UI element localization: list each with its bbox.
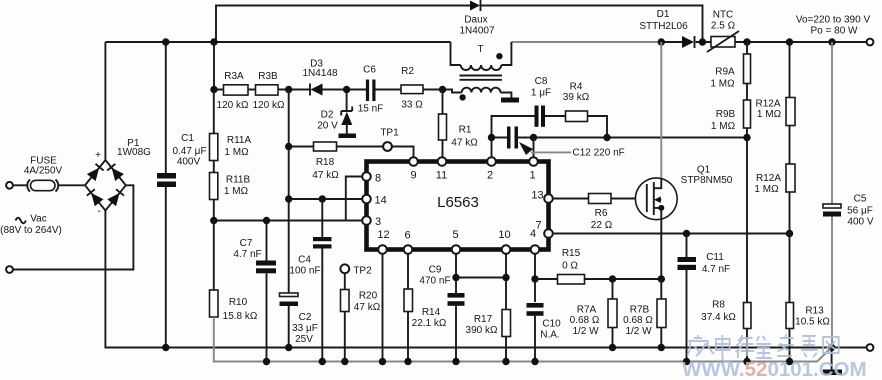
capacitor C11 [678,234,697,362]
svg-text:C5: C5 [854,194,867,205]
wire main rail grey section after transformer [511,41,661,43]
svg-text:TP2: TP2 [353,266,372,277]
svg-text:1: 1 [529,170,535,182]
junction dot R4 bottom node [603,134,610,141]
label R1 47k [451,125,478,149]
svg-text:R10: R10 [229,297,248,308]
resistor R12A lower [786,164,795,192]
resistor R9B [744,100,751,128]
chain C5 vertical grey [831,42,833,348]
svg-text:STTH2L06: STTH2L06 [639,21,688,32]
capacitor C4 [313,199,332,362]
label R7B [623,305,653,338]
svg-text:7: 7 [535,220,541,232]
IC pin 8 [362,172,371,181]
svg-text:1W08G: 1W08G [117,147,151,158]
svg-text:R3B: R3B [258,71,278,82]
resistor R14 [404,289,413,362]
IC pin 6 [404,245,413,254]
svg-text:3: 3 [375,216,381,228]
svg-text:11: 11 [436,170,447,182]
svg-text:NTC: NTC [713,10,734,21]
svg-text:C4: C4 [298,255,311,266]
IC pin 12 [378,245,387,254]
wire Q1 source vertical [660,234,662,280]
wire pin1 vertical [533,138,535,158]
resistor R11A [210,90,218,173]
resistor R13 [786,303,794,329]
label R4 39k [563,82,590,104]
label D1 STTH2L06 [639,9,688,32]
svg-text:C11: C11 [706,252,724,263]
label Vac [0,214,62,237]
label Vo Po output [796,15,871,37]
test point TP1 [383,142,413,157]
label C1 [172,133,206,168]
resistor R4 [566,111,608,138]
capacitor C1 [157,42,176,348]
IC pin 5 [452,245,461,254]
svg-text:Vac: Vac [30,214,47,225]
transistor Q1 MOSFET [635,42,677,234]
svg-text:Q1: Q1 [697,165,711,176]
terminal input top [6,182,13,189]
junction dot R3A row [210,86,217,93]
svg-text:R9B: R9B [716,109,736,120]
junction dot R13 top [786,230,793,237]
wire bridge top to rail [104,42,106,160]
IC pin 7 [544,229,553,238]
resistor R6 [589,194,612,204]
wire pin3 row [214,220,362,222]
svg-text:R2: R2 [401,66,414,77]
label C7 4.7nF [233,238,261,260]
label NTC 2.5 ohm [711,10,736,32]
svg-text:D2: D2 [321,110,334,121]
label R15 0ohm [562,248,581,272]
svg-text:20 V: 20 V [317,121,338,132]
chain R12 vertical [789,42,791,362]
svg-text:C12 220 nF: C12 220 nF [573,148,625,159]
svg-text:0.47 μF: 0.47 μF [172,146,206,157]
label C6 15nF [358,65,384,115]
wire pin10 vertical [505,254,507,310]
label R14 22.1k [412,307,447,329]
svg-text:1 MΩ: 1 MΩ [710,79,735,90]
capacitor C2 electrolytic [280,293,299,348]
svg-text:4.7 nF: 4.7 nF [233,249,261,260]
label C10 NA [540,319,561,341]
chain R3B node vertical x288.7 [288,90,290,294]
svg-text:120 kΩ: 120 kΩ [217,100,249,111]
svg-text:C7: C7 [240,238,253,249]
svg-text:2: 2 [487,170,493,182]
wire C12 row [492,137,748,139]
label R18 47k [312,157,339,181]
junction dot R9B bottom [743,134,750,141]
label R7A [570,305,600,338]
svg-text:37.4 kΩ: 37.4 kΩ [701,312,736,323]
svg-text:D1: D1 [657,9,670,20]
IC pin 4 [531,245,540,254]
wire pin8 link [346,177,363,221]
svg-text:4: 4 [530,228,536,240]
wire pin5 vertical [455,254,457,293]
resistor R12A upper [786,98,795,126]
label R13 10.5k [795,306,830,328]
svg-text:6: 6 [404,230,410,242]
label R2 33ohm [401,66,423,111]
svg-text:5: 5 [452,229,458,241]
wire x214 vertical from rails to R3A row [213,42,215,90]
junction dot R18 left [285,143,292,150]
svg-text:1/2 W: 1/2 W [625,326,652,337]
thermistor NTC [707,31,739,52]
label R17 390k [466,314,498,336]
label R12A upper [755,99,781,121]
label C5 56uF 400V [847,194,874,228]
svg-text:4A/250V: 4A/250V [24,166,63,177]
IC pin 10 [502,245,511,254]
wire pin4 vertical [534,254,536,302]
resistor R11B [210,173,218,221]
ground bar D2 [339,134,357,139]
svg-text:R11B: R11B [226,175,251,186]
test point TP2 [340,264,349,273]
transformer phasing dot secondary [459,94,465,100]
junction dot pin5 row [452,274,459,281]
svg-text:TP1: TP1 [380,128,399,139]
svg-text:22.1 kΩ: 22.1 kΩ [412,318,447,329]
label D2 20V [317,110,338,132]
svg-text:39 kΩ: 39 kΩ [563,92,590,103]
IC pin 3 [362,216,371,225]
junction dot pin10 row [502,274,509,281]
svg-text:R17: R17 [474,314,493,325]
svg-text:47 kΩ: 47 kΩ [451,138,478,149]
watermark [682,334,867,380]
IC pin 11 [438,157,447,166]
wire pin7 row [553,233,790,235]
svg-text:33 Ω: 33 Ω [401,100,423,111]
svg-text:10.5 kΩ: 10.5 kΩ [795,317,830,328]
wire top auxiliary rail [216,6,703,43]
transformer secondary [443,88,512,98]
svg-text:N.A.: N.A. [540,330,559,341]
svg-text:R18: R18 [316,157,335,168]
resistor R8 [744,303,752,329]
svg-text:22 Ω: 22 Ω [591,220,613,231]
junction dots on main rail [162,38,169,45]
terminal output plus [867,39,874,46]
capacitor C9 [448,293,465,362]
svg-text:-: - [97,206,100,217]
capacitor C5 electrolytic [823,204,841,217]
svg-text:1 MΩ: 1 MΩ [711,121,736,132]
junction dot R11B bottom [210,217,217,224]
wire pin12 vertical [382,254,384,362]
resistor R15 [535,275,661,285]
svg-text:1/2 W: 1/2 W [572,326,599,337]
junction dots grey bus [263,358,270,365]
transformer T primary [451,42,512,70]
label R10 15.8k [223,297,258,322]
svg-text:15 nF: 15 nF [358,104,384,115]
label C11 4.7nF [702,252,730,275]
junction dot C11 top [683,230,690,237]
IC pin 9 [409,157,418,166]
svg-text:R14: R14 [422,307,441,318]
svg-text:0 Ω: 0 Ω [562,261,578,272]
svg-text:Po = 80 W: Po = 80 W [811,26,859,37]
diode D1 [682,36,695,48]
capacitor C7 [256,221,276,362]
svg-text:1 MΩ: 1 MΩ [757,109,782,120]
svg-text:C6: C6 [363,65,376,76]
transformer core [460,76,503,80]
label R11A 1M [224,135,251,158]
junction dot C4 top [319,195,326,202]
svg-text:R8: R8 [712,300,725,311]
svg-text:C8: C8 [535,76,548,87]
wire pin13 gate row [553,198,647,200]
svg-text:390 kΩ: 390 kΩ [466,325,498,336]
svg-text:R12A: R12A [756,173,781,184]
label Daux 1N4007 [459,15,494,37]
junction dot pin14 row left [285,195,292,202]
svg-text:8: 8 [375,173,381,185]
zener D2 [341,90,352,134]
junction dot C7 top [263,217,270,224]
junction dot R7A top [609,275,616,282]
svg-text:9: 9 [410,170,416,182]
svg-text:1 MΩ: 1 MΩ [754,184,779,195]
svg-text:1N4148: 1N4148 [302,68,337,79]
junction dot D2 node [343,86,350,93]
capacitor C10 [527,303,544,362]
svg-text:R11A: R11A [227,135,252,146]
svg-text:R13: R13 [805,306,824,317]
svg-text:R3A: R3A [224,71,244,82]
svg-text:1 μF: 1 μF [531,88,551,99]
label R8 37.4k [701,300,736,324]
resistor R18 [289,142,383,151]
svg-text:0.68 Ω: 0.68 Ω [570,315,600,326]
svg-text:400 V: 400 V [847,217,873,228]
label R20 47k [354,291,381,314]
svg-text:1 MΩ: 1 MΩ [224,147,249,158]
wire pin6 vertical [407,254,409,289]
label R3A [217,71,249,111]
label C8 1uF [531,76,551,99]
svg-text:R7A: R7A [577,305,597,316]
svg-text:+: + [95,150,101,161]
wire main rail y=42 left section [105,41,450,43]
resistor R9A [744,54,751,84]
label C12 arrow [519,142,571,155]
svg-text:R20: R20 [359,291,378,302]
svg-text:C10: C10 [542,319,561,330]
resistor R7B [657,279,666,348]
svg-text:15.8 kΩ: 15.8 kΩ [223,311,258,322]
resistor R1 [439,90,447,158]
svg-text:1N4007: 1N4007 [459,26,494,37]
junction dot pin4 R15 [531,275,538,282]
transformer phasing dot primary [496,53,502,59]
label C2 33uF 25V [292,312,318,345]
ground chassis bottom right [823,348,842,376]
svg-text:14: 14 [375,195,387,207]
svg-text:R15: R15 [562,248,581,259]
svg-text:R9A: R9A [715,67,735,78]
label R9B 1M [711,109,736,132]
capacitor C8 [535,106,546,127]
junction dot pin2 vertical C12 row [488,134,495,141]
svg-text:R6: R6 [595,208,608,219]
svg-text:(88V to 264V): (88V to 264V) [0,225,62,236]
label D3 1N4148 [302,59,337,80]
IC U1 L6563 box [367,162,549,250]
svg-text:STP8NM50: STP8NM50 [681,175,733,186]
label R9A 1M [710,67,735,90]
label C9 470nF [419,265,450,287]
resistor R20 [341,273,350,361]
IC pin 2 [487,157,496,166]
ground bar secondary [501,98,519,103]
fuse FUSE [13,180,85,192]
svg-text:120 kΩ: 120 kΩ [253,100,285,111]
capacitor C6 [366,80,401,102]
svg-text:1 MΩ: 1 MΩ [224,186,249,197]
svg-text:47 kΩ: 47 kΩ [312,170,339,181]
svg-text:C9: C9 [429,265,442,276]
diode Daux [470,0,481,11]
junction dot pin1 top [530,134,537,141]
label FUSE 4A/250V [24,156,63,177]
IC pin 13 [544,194,553,203]
junction dot R2 right node [439,86,446,93]
label R12A lower [754,173,781,195]
resistor R17 [502,310,511,362]
svg-text:12: 12 [377,229,389,241]
svg-text:100 nF: 100 nF [289,266,320,277]
label Q1 STP8NM50 [681,165,733,187]
terminal output minus [867,344,874,351]
resistor R10 [210,221,219,318]
diode D3 [310,84,366,96]
bridge rectifier P1 [85,160,126,211]
terminal input bottom [6,266,13,273]
svg-text:WWW.520101.COM: WWW.520101.COM [682,358,867,380]
svg-text:25V: 25V [295,334,313,345]
resistor R7A [608,279,617,348]
svg-text:4.7 nF: 4.7 nF [702,264,730,275]
svg-text:470 nF: 470 nF [419,276,450,287]
svg-text:10: 10 [498,229,510,241]
svg-text:0.68 Ω: 0.68 Ω [623,315,653,326]
junction dot R3B right node [285,86,292,93]
svg-text:Vo=220 to 390 V: Vo=220 to 390 V [796,15,871,26]
label C4 100nF [289,255,320,277]
label R6 22ohm [591,208,613,231]
label R11B 1M [224,175,251,198]
IC pin 1 [529,157,538,166]
svg-text:R7B: R7B [630,305,650,316]
IC pin 14 [362,195,371,204]
svg-text:R4: R4 [570,82,583,93]
svg-text:T: T [477,44,483,55]
resistor R3A [214,85,256,95]
wire bridge right to lower terminal [13,185,133,269]
svg-text:33 μF: 33 μF [292,323,318,334]
wire pin5 pin10 row [456,277,506,279]
label R3B [253,71,285,111]
wire pin14 row VCC [289,198,363,200]
resistor R3B [256,85,310,95]
svg-text:R1: R1 [459,125,472,136]
svg-text:47 kΩ: 47 kΩ [354,302,381,313]
wire ground bus black [105,211,866,348]
capacitor C12 [507,127,518,149]
junction dot R7B top source [658,275,665,282]
svg-text:L6563: L6563 [437,194,479,211]
svg-text:R12A: R12A [755,99,780,110]
wire pin2 vertical and C8 row [492,116,566,158]
svg-text:400V: 400V [177,157,201,168]
svg-text:C1: C1 [181,133,194,144]
resistor R2 [401,85,443,94]
svg-text:56 μF: 56 μF [847,206,873,217]
chain R9 vertical [746,42,748,362]
svg-text:C2: C2 [299,312,312,323]
wire rail D1 segment [661,41,866,43]
svg-text:2.5 Ω: 2.5 Ω [711,21,736,32]
svg-text:Daux: Daux [464,15,487,26]
wire ground bus grey signal [214,317,832,362]
label P1 1W08G [117,138,151,158]
svg-text:13: 13 [531,190,543,202]
junction dots black bus [162,344,169,351]
